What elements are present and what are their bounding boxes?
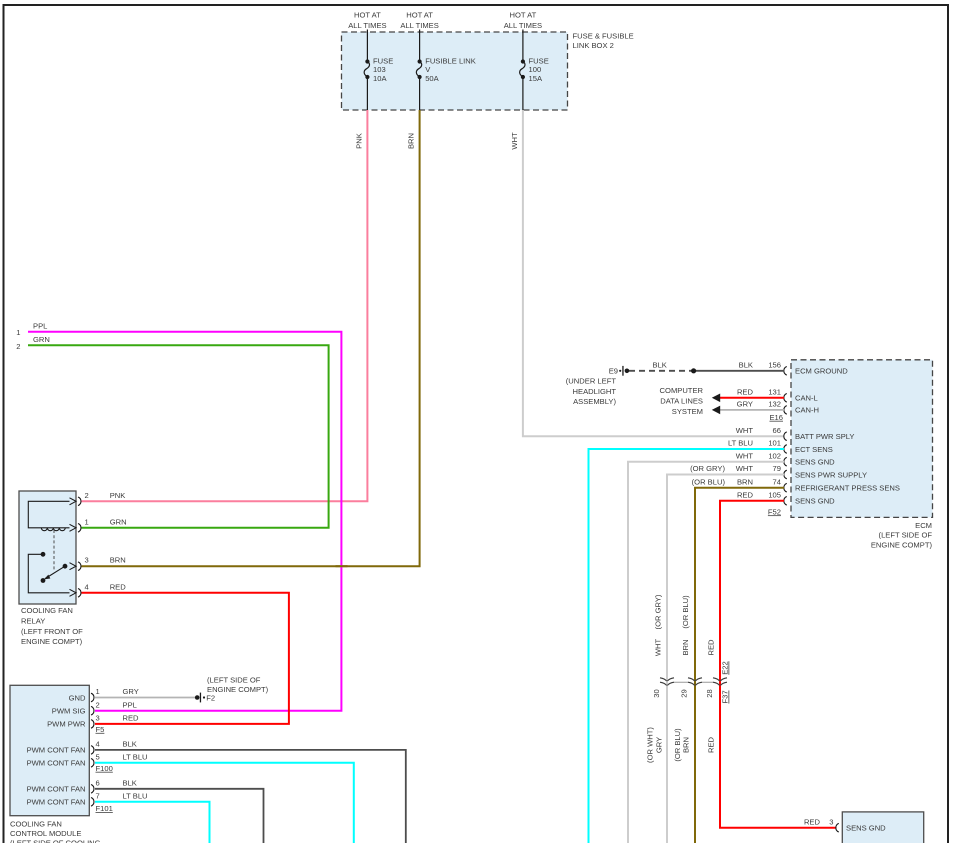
wire BLK module pin 4 [95, 750, 406, 843]
inline connector link line [674, 681, 713, 683]
module pin 7 connector arc [91, 798, 94, 807]
svg-text:GRY: GRY [123, 687, 139, 696]
module pin 1 GND connector arc [91, 693, 94, 702]
svg-text:ENGINE COMPT): ENGINE COMPT) [871, 540, 933, 549]
svg-text:RED: RED [804, 817, 821, 826]
svg-text:(OR BLU): (OR BLU) [692, 477, 726, 486]
svg-text:50A: 50A [425, 74, 439, 83]
svg-text:79: 79 [773, 464, 781, 473]
svg-text:RED: RED [737, 491, 754, 500]
svg-text:HOT AT: HOT AT [510, 11, 537, 20]
svg-text:2: 2 [16, 342, 20, 351]
ECM pin 131 CAN-L connector arc [784, 394, 787, 403]
svg-text:PPL: PPL [123, 700, 137, 709]
svg-text:CONTROL MODULE: CONTROL MODULE [10, 829, 81, 838]
svg-text:6: 6 [96, 779, 100, 788]
svg-text:RED: RED [707, 639, 716, 656]
relay switch arm arrowhead [44, 575, 50, 580]
svg-text:F52: F52 [768, 507, 781, 516]
svg-text:BRN: BRN [407, 133, 416, 149]
svg-text:(LEFT SIDE OF: (LEFT SIDE OF [207, 676, 261, 685]
wire LT BLU ECT SENS [589, 449, 785, 843]
sens gnd box pin 3 connector arc [836, 823, 839, 832]
relay pin 2 connector arc [78, 497, 81, 506]
svg-text:E16: E16 [769, 413, 783, 422]
svg-text:(LEFT SIDE OF: (LEFT SIDE OF [879, 531, 933, 540]
relay actuation dashed link [53, 530, 55, 570]
svg-text:2: 2 [96, 700, 100, 709]
svg-text:(UNDER LEFT: (UNDER LEFT [566, 377, 617, 386]
svg-text:ENGINE COMPT): ENGINE COMPT) [207, 685, 269, 694]
ECM pin 156 connector arc [784, 367, 787, 376]
ECM pin 101 ECT SENS connector arc [784, 445, 787, 454]
svg-text:GRN: GRN [33, 335, 50, 344]
svg-text:LT BLU: LT BLU [123, 792, 148, 801]
svg-text:PWM PWR: PWM PWR [47, 720, 86, 729]
module pin 3 PWM PWR connector arc [91, 720, 94, 729]
svg-text:(OR WHT): (OR WHT) [646, 727, 655, 763]
svg-text:(LEFT SIDE OF COOLING: (LEFT SIDE OF COOLING [10, 839, 101, 843]
svg-text:WHT: WHT [736, 464, 754, 473]
svg-text:28: 28 [705, 689, 714, 697]
wire GRN from pin 2 to relay pin 1 [28, 345, 329, 528]
fuse 103 10A [365, 59, 369, 63]
inline connector pin 29 [688, 678, 702, 686]
wire RED relay pin 4 to module pin 3 [82, 593, 289, 724]
svg-text:F100: F100 [96, 764, 113, 773]
cooling fan control module box [10, 685, 89, 815]
svg-text:ECM GROUND: ECM GROUND [795, 367, 848, 376]
svg-text:WHT: WHT [736, 451, 754, 460]
svg-text:156: 156 [768, 360, 781, 369]
svg-text:ALL TIMES: ALL TIMES [504, 21, 542, 30]
relay pin 1 arrow [70, 524, 77, 531]
svg-text:BRN: BRN [737, 477, 753, 486]
module pin 2 PWM SIG connector arc [91, 706, 94, 715]
svg-text:GND: GND [69, 693, 86, 702]
svg-text:LINK BOX 2: LINK BOX 2 [573, 41, 614, 50]
svg-text:10A: 10A [373, 74, 387, 83]
svg-text:(OR BLU): (OR BLU) [681, 595, 690, 629]
wire WHT SENS GND 102 [628, 462, 784, 843]
wire BLK module pin 6 [95, 789, 264, 843]
wire BLK ECM ground (solid) [694, 370, 784, 372]
svg-text:F2: F2 [206, 693, 215, 702]
ECM pin 79 SENS PWR SUPPLY connector arc [784, 470, 787, 479]
svg-text:PWM CONT FAN: PWM CONT FAN [27, 785, 86, 794]
svg-text:F37: F37 [721, 690, 730, 703]
ECM box [791, 360, 933, 518]
svg-text:BLK: BLK [123, 740, 137, 749]
relay fixed contact [41, 552, 46, 557]
svg-text:RED: RED [707, 736, 716, 753]
svg-text:GRY: GRY [737, 399, 753, 408]
wire fuse 100 output [522, 77, 524, 110]
svg-text:3: 3 [96, 714, 100, 723]
svg-text:SENS GND: SENS GND [846, 824, 886, 833]
fuse & fusible link box 2 [342, 32, 568, 110]
svg-text:ECT SENS: ECT SENS [795, 445, 833, 454]
wire GRY CAN-H [720, 409, 784, 411]
svg-text:7: 7 [96, 792, 100, 801]
svg-text:BLK: BLK [739, 360, 753, 369]
module pin 6 connector arc [91, 785, 94, 794]
wire PNK fuse 103 to relay pin 2 [82, 110, 368, 501]
svg-text:132: 132 [768, 399, 781, 408]
svg-text:29: 29 [680, 689, 689, 697]
wire LT BLU module pin 5 [95, 763, 354, 843]
svg-text:101: 101 [768, 439, 781, 448]
svg-text:COMPUTER: COMPUTER [660, 386, 704, 395]
wire RED SENS GND 105 to bottom SENS GND box [720, 501, 837, 828]
svg-text:15A: 15A [529, 74, 543, 83]
svg-text:30: 30 [652, 689, 661, 697]
svg-text:RELAY: RELAY [21, 616, 45, 625]
svg-text:DATA LINES: DATA LINES [660, 397, 703, 406]
ECM pin 132 CAN-H connector arc [784, 406, 787, 415]
relay pin 3 connector arc [78, 562, 81, 571]
CAN-H arrowhead [712, 406, 720, 415]
svg-text:1: 1 [96, 687, 100, 696]
svg-text:LT BLU: LT BLU [123, 753, 148, 762]
svg-text:WHT: WHT [736, 426, 754, 435]
svg-text:F5: F5 [96, 725, 105, 734]
relay pin 4 arrow [70, 589, 77, 596]
svg-text:PNK: PNK [110, 491, 126, 500]
svg-text:102: 102 [768, 451, 781, 460]
svg-text:1: 1 [85, 517, 89, 526]
ECM pin 74 REFRIGERANT PRESS SENS connector arc [784, 483, 787, 492]
svg-text:CAN-L: CAN-L [795, 394, 818, 403]
svg-text:GRN: GRN [110, 517, 127, 526]
svg-text:PNK: PNK [355, 133, 364, 149]
relay pin 3 arrow [70, 563, 77, 570]
svg-text:HEADLIGHT: HEADLIGHT [573, 387, 617, 396]
relay pin 1 connector arc [78, 524, 81, 533]
inline connector pin 30 [660, 678, 674, 686]
fusible link V 50A [418, 59, 422, 63]
svg-text:E9: E9 [609, 367, 618, 376]
module pin 5 connector arc [91, 759, 94, 768]
svg-text:FUSE & FUSIBLE: FUSE & FUSIBLE [573, 32, 634, 41]
inline connector pin 28 [713, 678, 727, 686]
relay moving contact dot [41, 578, 46, 583]
ground F2 [195, 695, 200, 700]
wire BRN REFRIGERANT PRESS SENS [695, 488, 784, 843]
svg-text:PWM CONT FAN: PWM CONT FAN [27, 798, 86, 807]
svg-text:BRN: BRN [110, 556, 126, 565]
wire fuse 103 feed [366, 30, 368, 62]
svg-text:ALL TIMES: ALL TIMES [348, 21, 386, 30]
module pin 4 connector arc [91, 746, 94, 755]
svg-text:BLK: BLK [123, 779, 137, 788]
svg-text:HOT AT: HOT AT [354, 11, 381, 20]
svg-text:PWM CONT FAN: PWM CONT FAN [27, 746, 86, 755]
svg-text:CAN-H: CAN-H [795, 406, 819, 415]
junction dot [691, 368, 696, 373]
svg-text:3: 3 [829, 817, 833, 826]
svg-text:(OR GRY): (OR GRY) [690, 464, 725, 473]
svg-text:SENS GND: SENS GND [795, 497, 835, 506]
wire fusible link output [419, 77, 421, 110]
relay contact-to-pin4 wire [28, 554, 69, 593]
cooling fan relay box [19, 491, 76, 604]
svg-text:ALL TIMES: ALL TIMES [400, 21, 438, 30]
svg-text:PWM CONT FAN: PWM CONT FAN [27, 759, 86, 768]
svg-text:FUSIBLE LINK: FUSIBLE LINK [425, 57, 476, 66]
CAN-L arrowhead [712, 394, 720, 403]
fuse 100 15A [521, 59, 525, 63]
relay switch arm [45, 566, 65, 578]
svg-text:HOT AT: HOT AT [406, 11, 433, 20]
svg-text:WHT: WHT [654, 638, 663, 656]
svg-text:LT BLU: LT BLU [728, 439, 753, 448]
ground E9 [625, 369, 630, 374]
wire BRN fusible link to relay pin 3 [82, 110, 420, 566]
relay common contact [63, 564, 68, 569]
wire PPL from pin 1 to module pin 2 [28, 332, 341, 711]
wire WHT fuse 100 to ECM pin 66 [523, 110, 784, 436]
svg-text:(LEFT FRONT OF: (LEFT FRONT OF [21, 627, 83, 636]
svg-text:F101: F101 [96, 804, 113, 813]
svg-text:5: 5 [96, 753, 100, 762]
svg-text:COOLING FAN: COOLING FAN [10, 820, 62, 829]
wire WHT SENS PWR SUPPLY [667, 475, 784, 843]
svg-text:4: 4 [96, 740, 100, 749]
relay pin 4 connector arc [78, 589, 81, 598]
svg-text:66: 66 [773, 426, 781, 435]
svg-text:WHT: WHT [510, 132, 519, 150]
relay coil [41, 528, 65, 531]
svg-text:74: 74 [773, 477, 781, 486]
wire BLK ECM ground (dashed) [629, 370, 694, 372]
svg-text:SENS GND: SENS GND [795, 458, 835, 467]
svg-text:2: 2 [85, 491, 89, 500]
wire GRY module pin 1 to ground F2 [95, 697, 195, 699]
svg-text:ENGINE COMPT): ENGINE COMPT) [21, 637, 83, 646]
svg-text:ASSEMBLY): ASSEMBLY) [573, 397, 616, 406]
sens gnd box (bottom right) [842, 812, 923, 843]
svg-text:1: 1 [16, 328, 20, 337]
wire fusible link feed [419, 30, 421, 62]
wire BRN crossing overlay [336, 565, 348, 567]
svg-text:105: 105 [768, 491, 781, 500]
relay pin 2 arrow [70, 498, 77, 505]
svg-text:RED: RED [123, 714, 140, 723]
svg-text:(OR GRY): (OR GRY) [654, 594, 663, 629]
wire fuse 100 feed [522, 30, 524, 62]
svg-text:BRN: BRN [681, 639, 690, 655]
svg-text:RED: RED [110, 582, 127, 591]
svg-text:BRN: BRN [682, 737, 691, 753]
svg-text:3: 3 [85, 556, 89, 565]
svg-text:REFRIGERANT PRESS SENS: REFRIGERANT PRESS SENS [795, 484, 900, 493]
svg-text:131: 131 [768, 387, 781, 396]
svg-text:PPL: PPL [33, 321, 47, 330]
svg-text:4: 4 [85, 582, 89, 591]
ECM pin 105 SENS GND connector arc [784, 497, 787, 506]
svg-text:ECM: ECM [915, 521, 932, 530]
relay coil circuit wire (pin 2 to coil) [28, 501, 69, 528]
svg-text:RED: RED [737, 387, 754, 396]
svg-text:BLK: BLK [653, 360, 667, 369]
svg-text:BATT PWR SPLY: BATT PWR SPLY [795, 432, 855, 441]
ECM pin 66 connector arc [784, 432, 787, 441]
svg-text:E22: E22 [721, 661, 730, 675]
svg-text:SYSTEM: SYSTEM [672, 407, 703, 416]
svg-text:SENS PWR SUPPLY: SENS PWR SUPPLY [795, 470, 867, 479]
svg-text:PWM SIG: PWM SIG [52, 707, 86, 716]
wire fuse 103 output [366, 77, 368, 110]
wire RED CAN-L [720, 397, 784, 399]
wire LT BLU module pin 7 [95, 802, 210, 843]
svg-text:GRY: GRY [655, 737, 664, 753]
ECM pin 102 SENS GND connector arc [784, 457, 787, 466]
svg-text:COOLING FAN: COOLING FAN [21, 606, 73, 615]
